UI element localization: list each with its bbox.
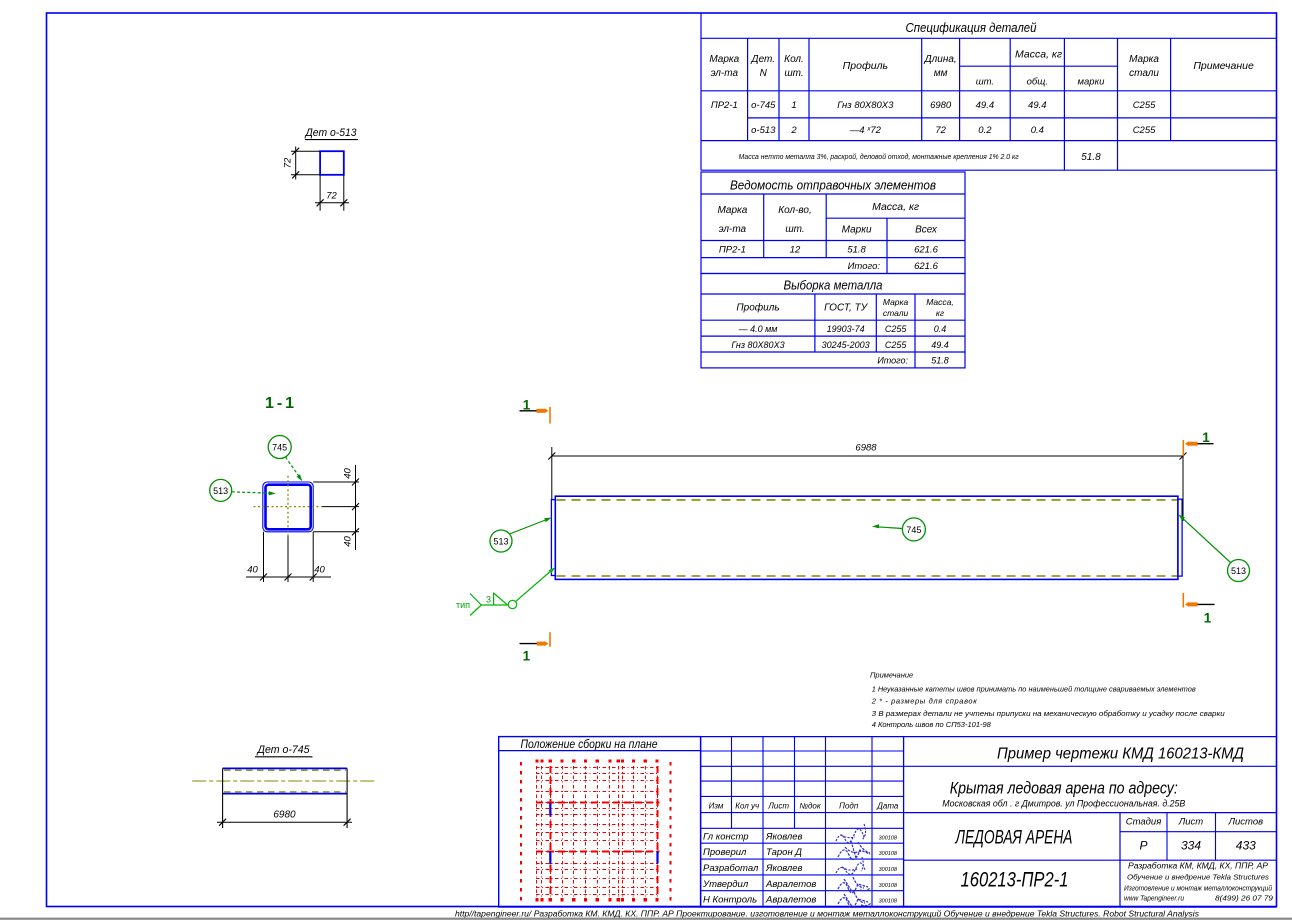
section 1-1 bottom dimension 40/40 [263,532,265,582]
svg-text:1: 1 [523,649,531,664]
svg-text:мм: мм [934,68,948,79]
beam mark circle 745 [902,518,925,541]
svg-text:Лист: Лист [1178,817,1204,828]
svg-text:Дата: Дата [876,802,899,811]
svg-text:Масса, кг: Масса, кг [1015,49,1062,61]
beam: main member outline [555,496,1178,579]
svg-text:Подп: Подп [839,802,859,811]
svg-text:Тарон Д: Тарон Д [766,847,802,858]
section 1-1 mark circle 745 [268,436,291,459]
section 1-1 right dimension 40/40 [313,481,359,483]
table: Выборка металла [701,274,965,368]
detail о-745 ends and dimension 6980 [222,768,224,828]
svg-text:Листов: Листов [1227,817,1263,828]
svg-text:300108: 300108 [879,883,898,889]
beam: right end plate [1178,499,1182,576]
svg-text:С255: С255 [885,324,908,334]
svg-text:513: 513 [493,537,508,547]
svg-text:1-1: 1-1 [265,395,297,412]
svg-text:30245-2003: 30245-2003 [822,340,870,350]
svg-text:Марка: Марка [1129,54,1159,65]
svg-text:Обучение и внедрение Tekla St: Обучение и внедрение Tekla Structures [1127,873,1269,882]
svg-text:www Tapengineer.ru: www Tapengineer.ru [1124,894,1185,903]
svg-text:8(499) 26 07 79: 8(499) 26 07 79 [1215,894,1274,903]
svg-text:40: 40 [343,536,354,547]
blue column marks on plan [549,803,551,816]
svg-text:Ведомость отправочных элементо: Ведомость отправочных элементов [730,178,936,193]
svg-text:Масса,: Масса, [926,297,954,307]
svg-text:ЛЕДОВАЯ АРЕНА: ЛЕДОВАЯ АРЕНА [954,828,1072,849]
svg-text:Итого:: Итого: [848,261,881,272]
window edge gray bar [0,918,1292,920]
svg-text:1: 1 [1202,430,1210,445]
svg-text:Итого:: Итого: [877,356,908,366]
beam: dimension 6988 [551,447,553,500]
svg-text:шт.: шт. [784,68,803,79]
svg-text:Марки: Марки [842,225,872,236]
svg-text:Всех: Всех [915,225,938,236]
detail о-745 tube edges [223,767,348,769]
svg-text:Пример чертежи КМД 160213-КМ: Пример чертежи КМД 160213-КМД [997,746,1244,763]
section 1-1 mark circle 513 [210,479,232,501]
svg-text:19903-74: 19903-74 [827,324,865,334]
svg-text:ГОСТ, ТУ: ГОСТ, ТУ [824,303,869,314]
svg-text:эл-та: эл-та [711,68,739,79]
section 1-1 centerlines [254,506,323,508]
svg-text:40: 40 [314,565,325,576]
svg-text:Примечание: Примечание [870,671,913,680]
svg-text:334: 334 [1181,839,1201,853]
beam mark circle 513 right [1228,560,1250,582]
svg-text:ПР2-1: ПР2-1 [711,100,738,111]
section 1-1 tube profile [263,482,313,532]
title block grid [700,737,702,907]
svg-text:12: 12 [790,245,801,256]
spec table: Спецификация деталей [701,37,1277,39]
svg-text:Крытая ледовая арена по адресу: Крытая ледовая арена по адресу: [950,779,1178,798]
svg-text:Гнз 80X80X3: Гнз 80X80X3 [731,340,784,350]
svg-text:Масса, кг: Масса, кг [872,201,919,213]
svg-text:6980: 6980 [273,810,296,821]
svg-text:Разработал: Разработал [703,863,759,874]
svg-text:745: 745 [906,525,921,535]
section cut mark 1 bottom-left [520,643,547,645]
svg-text:1: 1 [1204,611,1212,626]
svg-text:эл-та: эл-та [719,224,747,235]
svg-text:С255: С255 [1133,125,1156,136]
svg-text:1: 1 [523,398,531,413]
detail о-745 centerline [192,780,375,782]
detail о-513 plate outline [320,151,344,175]
svg-text:0.4: 0.4 [934,324,947,334]
svg-text:6988: 6988 [855,443,877,454]
svg-text:— 4.0 мм: — 4.0 мм [738,324,778,334]
svg-text:300108: 300108 [879,836,898,842]
svg-text:Стадия: Стадия [1126,817,1162,828]
svg-text:Р: Р [1139,839,1147,853]
svg-text:1: 1 [791,100,796,111]
svg-text:Изм: Изм [709,802,724,811]
beam mark circle 513 left [490,530,512,552]
detail о-513 dimension 72 vertical [291,150,320,152]
section cut mark 1 bottom-right [1188,603,1215,605]
svg-text:кг: кг [936,308,944,318]
svg-text:745: 745 [272,443,287,453]
svg-text:72: 72 [326,191,337,202]
svg-text:Разработка КМ, КМД, КХ, ППР, А: Разработка КМ, КМД, КХ, ППР, АР [1128,862,1269,871]
svg-text:4 Контроль швов по СП53-101-9: 4 Контроль швов по СП53-101-98 [872,720,992,729]
svg-text:стали: стали [1129,68,1159,79]
svg-text:о-513: о-513 [751,125,776,136]
svg-text:Марка: Марка [717,205,747,216]
svg-text:51.8: 51.8 [931,356,949,366]
svg-text:Марка: Марка [709,54,739,65]
svg-text:Гнз 80X80X3: Гнз 80X80X3 [837,100,894,111]
beam: hidden edge dashed top [557,499,1178,501]
svg-text:49.4: 49.4 [931,340,949,350]
red grid plan [521,759,671,901]
svg-text:—4 ˣ72: —4 ˣ72 [849,125,882,136]
table: Ведомость отправочных элементов [701,172,965,274]
svg-text:Спецификация деталей: Спецификация деталей [906,20,1037,35]
svg-text:51.8: 51.8 [847,245,866,256]
section cut mark 1 top-right [1188,443,1214,445]
svg-text:Утвердил: Утвердил [702,879,749,890]
svg-text:шт.: шт. [976,77,994,88]
svg-text:72: 72 [283,157,294,168]
svg-text:3: 3 [486,595,491,605]
svg-text:621.6: 621.6 [914,261,938,272]
svg-text:Московская обл . г Дмитров. у: Московская обл . г Дмитров. ул Профессио… [942,799,1185,809]
svg-text:3 В размерах детали не учтены: 3 В размерах детали не учтены припуски н… [872,709,1226,718]
svg-text:Изготовление и монтаж металлок: Изготовление и монтаж металлоконструкций [1124,884,1272,893]
svg-text:марки: марки [1078,77,1106,88]
svg-text:ПР2-1: ПР2-1 [719,245,746,256]
svg-text:С255: С255 [885,340,908,350]
svg-text:Кол уч: Кол уч [735,802,759,811]
svg-text:тип: тип [456,600,470,610]
svg-text:Кол-во,: Кол-во, [778,205,812,216]
svg-text:Профиль: Профиль [843,60,888,72]
svg-text:0.2: 0.2 [978,125,992,136]
svg-text:300108: 300108 [879,851,898,857]
svg-text:Кол.: Кол. [784,54,804,65]
svg-text:Н Контроль: Н Контроль [703,895,757,906]
svg-text:Дет о-513: Дет о-513 [304,127,358,139]
svg-text:Примечание: Примечание [1193,60,1254,72]
svg-text:№док: №док [799,802,822,811]
detail о-745 hidden dashed edges [224,769,346,771]
svg-text:2: 2 [790,125,797,136]
svg-text:51.8: 51.8 [1081,152,1101,163]
svg-text:Масса нетто металла 3%, раскро: Масса нетто металла 3%, раскрой, деловой… [739,152,1019,161]
svg-text:Проверил: Проверил [703,847,747,858]
svg-text:513: 513 [1231,566,1246,576]
svg-text:72: 72 [935,125,946,136]
beam: hidden edge dashed bottom [557,575,1178,577]
svg-text:Положение сборки на плане: Положение сборки на плане [521,739,658,751]
svg-text:300108: 300108 [879,899,898,905]
svg-text:С255: С255 [1133,100,1156,111]
detail о-513 dimension 72 horizontal [319,175,321,211]
svg-text:Яковлев: Яковлев [765,832,803,843]
svg-text:Выборка металла: Выборка металла [784,278,883,293]
svg-text:Лист: Лист [767,802,789,811]
svg-text:Авралетов: Авралетов [765,879,816,890]
svg-text:49.4: 49.4 [976,100,995,111]
svg-text:N: N [760,68,768,79]
beam: left end plate [551,500,555,576]
svg-text:433: 433 [1236,839,1256,853]
svg-text:621.6: 621.6 [914,245,938,256]
svg-text:0.4: 0.4 [1031,125,1044,136]
svg-text:40: 40 [247,565,258,576]
svg-text:шт.: шт. [785,224,804,235]
svg-text:300108: 300108 [879,867,898,873]
svg-text:40: 40 [343,468,354,479]
svg-text:Марка: Марка [883,297,909,307]
svg-text:http//tapengineer.ru/ Разраб: http//tapengineer.ru/ Разработка КМ. КМД… [455,909,1200,919]
svg-text:Авралетов: Авралетов [765,895,816,906]
svg-text:6980: 6980 [930,100,952,111]
svg-text:2 * - размеры для справок: 2 * - размеры для справок [871,697,978,706]
svg-text:Длина,: Длина, [924,54,957,65]
svg-text:Дет о-745: Дет о-745 [256,744,311,756]
section cut mark 1 top-left [520,410,547,412]
box Положение сборки на плане [499,737,701,907]
svg-text:общ.: общ. [1027,77,1048,88]
svg-text:Профиль: Профиль [736,302,779,314]
svg-text:513: 513 [213,486,228,496]
svg-text:49.4: 49.4 [1028,100,1047,111]
signatures [836,824,866,843]
svg-text:160213-ПР2-1: 160213-ПР2-1 [961,869,1069,892]
svg-text:Дет.: Дет. [751,54,776,65]
svg-text:стали: стали [883,308,909,318]
svg-text:Гл констр: Гл констр [703,832,749,843]
svg-text:1 Неуказанные катеты швов при: 1 Неуказанные катеты швов принимать по н… [872,685,1196,694]
svg-text:о-745: о-745 [751,100,776,111]
svg-text:Яковлев: Яковлев [765,863,803,874]
